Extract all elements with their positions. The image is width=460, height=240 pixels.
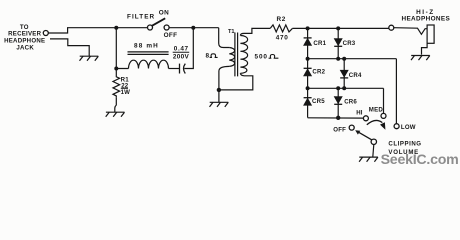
wire switch to transformer corner — [169, 27, 219, 29]
svg-text:1W: 1W — [121, 89, 131, 96]
svg-text:ON: ON — [159, 10, 169, 17]
headphone jack sleeve to ground — [422, 43, 428, 54]
transformer T1 primary winding — [229, 48, 234, 67]
svg-text:R2: R2 — [277, 16, 286, 23]
wire rail corner down to T1 primary top — [219, 28, 230, 48]
wire ground node down — [218, 90, 220, 102]
wire T1 primary bottom to ground node — [219, 66, 229, 90]
svg-text:0.47: 0.47 — [174, 46, 189, 53]
svg-text:470: 470 — [276, 35, 289, 42]
svg-text:CR3: CR3 — [343, 40, 356, 47]
node I (rail2 / CR4) — [342, 57, 346, 61]
node D (T1 common ground junction) — [217, 88, 221, 92]
resistor R2 — [270, 25, 292, 32]
wire inductor to capacitor — [169, 68, 180, 70]
node K (rail3 / CR6) — [336, 86, 340, 90]
switch S1 FILTER — [148, 18, 170, 30]
wire rail2 to LOW terminal — [395, 59, 397, 124]
terminal OFF — [349, 125, 354, 130]
svg-text:200V: 200V — [173, 54, 190, 61]
svg-text:HI: HI — [356, 110, 363, 117]
node E (rail1 / CR1) — [306, 26, 310, 30]
inductor L1 88mH — [129, 60, 169, 68]
svg-text:FILTER: FILTER — [127, 13, 155, 20]
headphone jack J2 (tip contact + plug) — [394, 25, 434, 43]
wire rail3 — [308, 87, 384, 89]
ground (R1) — [106, 112, 125, 117]
svg-text:CR1: CR1 — [313, 40, 326, 47]
node F (rail1 / CR3) — [336, 26, 340, 30]
terminal headphone tip — [389, 25, 394, 30]
inductor L1 core lines — [128, 52, 169, 55]
node C (filter bottom / R1 junction) — [114, 67, 118, 71]
omega squiggle primary — [210, 54, 218, 58]
diode CR3 — [334, 28, 342, 58]
svg-text:CR2: CR2 — [312, 68, 325, 75]
label HI-Z HEADPHONES — [401, 9, 450, 22]
node J (rail3 / CR2-CR5) — [306, 86, 310, 90]
diode CR2 — [304, 59, 312, 89]
ground (T1) — [210, 102, 229, 107]
ground (wiper) — [359, 157, 378, 162]
svg-text:LOW: LOW — [401, 124, 416, 131]
terminal J1 (input tip) — [43, 31, 48, 36]
wire input tip to top rail — [48, 28, 116, 33]
label R1 22 1W — [121, 76, 131, 96]
svg-text:RECEIVER: RECEIVER — [8, 30, 42, 37]
label: TO RECEIVER HEADPHONE JACK — [4, 24, 45, 52]
svg-text:88 mH: 88 mH — [134, 43, 159, 50]
svg-text:CR4: CR4 — [349, 72, 362, 79]
node L (rail3 / CR4) — [342, 86, 346, 90]
node A (rail / filter left junction) — [114, 26, 118, 30]
ground (jack sleeve) — [411, 56, 430, 61]
rotary wiper arm with arrowhead — [355, 130, 372, 140]
svg-text:8: 8 — [206, 53, 210, 60]
terminal LOW — [394, 124, 399, 129]
wire rail4 to HI terminal — [308, 117, 364, 119]
wire rail2 — [308, 58, 397, 60]
svg-text:500: 500 — [255, 53, 268, 60]
wire capacitor to filter right branch — [184, 28, 193, 69]
transformer T1 secondary winding — [240, 36, 247, 74]
terminal MED — [381, 113, 386, 118]
node G (rail2 / CR1-CR2) — [306, 57, 310, 61]
svg-text:CLIPPING: CLIPPING — [388, 141, 421, 148]
svg-text:OFF: OFF — [333, 127, 346, 134]
wire T1 secondary top to R2 — [240, 28, 270, 35]
wire R2 to output terminal (top rail right) — [292, 27, 388, 29]
diode CR1 — [304, 28, 312, 58]
svg-text:SeekIC.com: SeekIC.com — [381, 152, 459, 168]
wire filter left branch down — [116, 28, 128, 69]
svg-text:JACK: JACK — [16, 45, 34, 52]
capacitor C1 0.47 — [180, 64, 186, 74]
svg-text:HEADPHONES: HEADPHONES — [401, 16, 450, 23]
diode CR5 — [304, 88, 312, 117]
wire R1 to ground — [115, 97, 117, 112]
omega squiggle secondary — [269, 55, 279, 59]
wire input sleeve to ground — [50, 39, 89, 56]
wire wiper to ground — [373, 145, 374, 158]
wire rail to filter switch — [116, 27, 147, 29]
wire T1 secondary bottom to ground node — [219, 73, 253, 90]
node B (rail / filter right junction) — [191, 26, 195, 30]
transformer T1 core — [235, 33, 238, 77]
label CLIPPING VOLUME — [388, 141, 421, 156]
svg-text:T1: T1 — [228, 29, 235, 35]
rotary wiper circle — [371, 139, 376, 144]
wire rail3 to MED terminal — [383, 88, 385, 113]
node H (rail2 / CR3) — [336, 57, 340, 61]
node M (rail4 / CR6) — [336, 116, 340, 120]
resistor R1 — [113, 69, 120, 98]
label 0.47 / 200V — [173, 46, 190, 61]
diode CR4 — [340, 59, 348, 89]
rotation direction curved arrow — [367, 120, 386, 129]
terminal HI — [363, 116, 368, 121]
svg-text:OFF: OFF — [164, 32, 178, 39]
svg-text:CR5: CR5 — [312, 98, 325, 105]
ground (input sleeve) — [80, 56, 99, 61]
svg-text:MED: MED — [369, 107, 384, 114]
diode CR6 — [334, 88, 342, 117]
svg-text:CR6: CR6 — [344, 99, 357, 106]
